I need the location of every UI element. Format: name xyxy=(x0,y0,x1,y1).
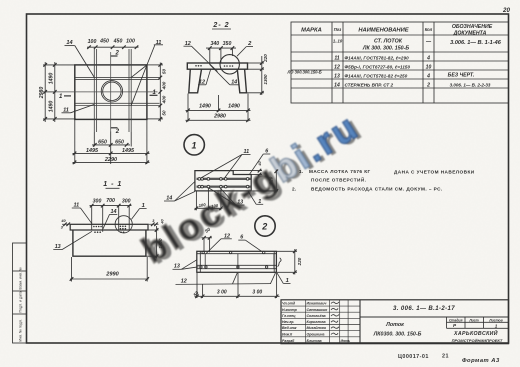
svg-text:Светашкин: Светашкин xyxy=(307,308,329,312)
svg-text:ЛК 300. 300. 150-Б: ЛК 300. 300. 150-Б xyxy=(362,46,410,52)
svg-text:1490: 1490 xyxy=(48,101,54,113)
svg-text:700: 700 xyxy=(106,198,115,204)
watermark block-gbi.ru xyxy=(135,104,371,274)
svg-text:Блинова: Блинова xyxy=(307,339,322,343)
svg-text:ОБОЗНАЧЕНИЕ: ОБОЗНАЧЕНИЕ xyxy=(452,24,493,30)
svg-text:220: 220 xyxy=(297,257,302,266)
svg-text:2: 2 xyxy=(115,129,120,135)
svg-text:Стадия: Стадия xyxy=(449,318,463,322)
svg-text:Гл.спец: Гл.спец xyxy=(282,314,296,318)
svg-text:100: 100 xyxy=(126,38,135,44)
svg-text:Подп. и дата: Подп. и дата xyxy=(19,291,23,312)
svg-text:1490: 1490 xyxy=(48,73,54,85)
plan section line 1-1 horizontal xyxy=(56,91,158,93)
svg-text:40: 40 xyxy=(257,161,262,167)
svg-text:СТЕРЖЕНЬ ВПР. СТ 2: СТЕРЖЕНЬ ВПР. СТ 2 xyxy=(345,83,394,88)
svg-text:Июнь: Июнь xyxy=(341,339,351,343)
svg-text:3 00: 3 00 xyxy=(217,290,227,296)
svg-text:3 00: 3 00 xyxy=(252,290,262,296)
plan opening horizontal lines xyxy=(75,77,160,105)
svg-text:Н.контр: Н.контр xyxy=(282,308,298,312)
svg-text:1: 1 xyxy=(495,323,498,328)
svg-text:10: 10 xyxy=(426,65,432,71)
svg-text:14: 14 xyxy=(166,195,172,201)
detail 1 bottom dims 100 100 xyxy=(195,188,223,210)
svg-text:Ф5Вр-I, ГОСТ6727-80, ℓ=1150: Ф5Вр-I, ГОСТ6727-80, ℓ=1150 xyxy=(345,65,411,70)
section 1-1 rebar dots xyxy=(93,226,126,234)
detail 1 outline with notch xyxy=(195,171,251,191)
svg-text:2290: 2290 xyxy=(104,157,117,163)
plan bottom dimension 650 650 xyxy=(92,132,131,165)
svg-text:Поз: Поз xyxy=(334,27,342,32)
note line 1 xyxy=(299,169,475,175)
svg-text:12: 12 xyxy=(334,65,340,71)
svg-text:Кириллова: Кириллова xyxy=(307,320,326,324)
svg-text:220: 220 xyxy=(263,54,268,63)
svg-text:21: 21 xyxy=(442,353,449,359)
svg-text:ХАРЬКОВСКИЙ: ХАРЬКОВСКИЙ xyxy=(453,329,498,337)
spec table grid xyxy=(291,22,509,103)
svg-text:40: 40 xyxy=(60,219,66,223)
plan bottom dimension 1495 1495 xyxy=(73,120,150,165)
svg-text:650: 650 xyxy=(115,139,124,145)
svg-text:ПОСЛЕ ОТВЕРСТИЙ.: ПОСЛЕ ОТВЕРСТИЙ. xyxy=(311,176,366,183)
plan opening vertical lines xyxy=(94,49,131,132)
left margin vertical texts xyxy=(19,267,23,341)
plan section line 2-2 vertical xyxy=(110,52,112,132)
svg-text:4: 4 xyxy=(426,74,430,80)
svg-text:ДАНА С УЧЕТОМ НАВЕЛОВКИ: ДАНА С УЧЕТОМ НАВЕЛОВКИ xyxy=(394,170,475,175)
svg-text:4: 4 xyxy=(426,56,430,62)
plan diagonal leaders to 11 xyxy=(131,45,155,106)
svg-text:2- 2: 2- 2 xyxy=(212,21,229,29)
svg-text:Орешкина: Орешкина xyxy=(307,332,325,336)
svg-text:400: 400 xyxy=(162,95,167,104)
svg-text:450: 450 xyxy=(113,38,123,44)
svg-text:300: 300 xyxy=(122,198,131,204)
svg-text:2980: 2980 xyxy=(213,114,226,120)
svg-text:400: 400 xyxy=(162,81,167,90)
svg-text:13: 13 xyxy=(334,74,340,80)
svg-text:2980: 2980 xyxy=(39,87,45,100)
svg-text:100: 100 xyxy=(88,39,97,45)
svg-text:Лист: Лист xyxy=(468,318,478,322)
plan right dimension chain 50 400 400 50 xyxy=(147,63,163,122)
svg-text:Чл.отд: Чл.отд xyxy=(282,302,296,306)
svg-text:2.: 2. xyxy=(292,187,297,192)
detail 2 bottom bar xyxy=(197,265,277,268)
spec table qty column xyxy=(425,39,432,89)
title block signature grid xyxy=(281,300,360,344)
section 2-2 left leg xyxy=(189,69,202,93)
section 1-1 right small dims 3 40 xyxy=(151,223,158,227)
svg-text:Нач.гр.: Нач.гр. xyxy=(282,320,294,324)
detail 1 stirrup circles xyxy=(198,178,249,188)
svg-text:50: 50 xyxy=(162,110,167,116)
svg-text:2: 2 xyxy=(426,83,430,89)
svg-text:300: 300 xyxy=(93,198,102,204)
plan hole circle xyxy=(101,81,122,102)
svg-text:2: 2 xyxy=(261,222,267,232)
svg-text:ПРОМСТРОЙНИИПРОЕКТ: ПРОМСТРОЙНИИПРОЕКТ xyxy=(452,338,503,343)
plan top dimension line 100 450 450 100 xyxy=(87,45,139,49)
svg-text:Ф14АIII, ГОСТ5781-82 ℓ=250: Ф14АIII, ГОСТ5781-82 ℓ=250 xyxy=(345,74,408,79)
section 2-2 detail circle xyxy=(220,55,239,74)
section 1-1 body xyxy=(73,230,146,256)
detail 2 top-left dim 50 xyxy=(202,236,213,252)
svg-text:1: 1 xyxy=(191,140,196,150)
svg-text:МАССА ЛОТКА 7576 КГ: МАССА ЛОТКА 7576 КГ xyxy=(309,169,371,174)
svg-text:Формат А3: Формат А3 xyxy=(462,358,500,364)
section 2-2 bottom dims 1490 1490 2980 xyxy=(186,94,251,123)
svg-text:Лоток: Лоток xyxy=(385,322,404,328)
title block outline xyxy=(281,300,509,344)
section 1-1 top plate xyxy=(70,224,148,230)
svg-text:13: 13 xyxy=(174,264,180,270)
svg-text:1490: 1490 xyxy=(199,104,211,110)
svg-text:50: 50 xyxy=(162,69,167,75)
svg-text:1..10: 1..10 xyxy=(333,39,343,44)
svg-text:3.006. 1— В. 2-2-33: 3.006. 1— В. 2-2-33 xyxy=(450,83,491,88)
plan outer square xyxy=(75,65,147,120)
section 1-1 left small dims 40 3 xyxy=(63,223,70,227)
svg-text:350: 350 xyxy=(223,41,232,47)
section 1-1 detail circle xyxy=(115,216,132,233)
detail 2 outline xyxy=(197,251,277,272)
svg-text:Михайлова: Михайлова xyxy=(307,326,326,330)
detail 1 dim 40 at notch xyxy=(233,169,262,177)
svg-text:14: 14 xyxy=(334,83,340,89)
svg-text:СТ. ЛОТОК: СТ. ЛОТОК xyxy=(374,39,403,45)
svg-text:650: 650 xyxy=(98,139,107,145)
spec table name column xyxy=(345,39,411,88)
section 2-2 top dims 340 350 xyxy=(206,46,236,63)
detail 1 circled number xyxy=(184,135,204,155)
svg-text:100: 100 xyxy=(198,202,206,208)
section 1-1 right dim 180 xyxy=(147,226,159,259)
svg-text:Кол: Кол xyxy=(425,27,433,32)
section 1-1 top dims 300 700 300 xyxy=(90,204,132,225)
section 2-2 right dims 220 1300 xyxy=(247,56,264,95)
svg-text:1300: 1300 xyxy=(263,74,268,85)
svg-text:Ф14АIII, ГОСТ5781-82, ℓ=290: Ф14АIII, ГОСТ5781-82, ℓ=290 xyxy=(345,56,410,61)
detail 2 stirrup circles xyxy=(200,251,268,268)
spec table poz column xyxy=(333,39,343,89)
detail 2 stirrups xyxy=(205,254,274,269)
detail 2 break squiggle xyxy=(278,258,282,267)
svg-text:100: 100 xyxy=(211,203,219,209)
plan bottom dimension 2990 xyxy=(73,161,150,165)
detail 2 end plates xyxy=(200,251,274,272)
svg-text:Инв. № подл.: Инв. № подл. xyxy=(19,319,23,341)
svg-text:ЛО 300.300.150-Б: ЛО 300.300.150-Б xyxy=(287,70,322,75)
svg-text:3. 006. 1— В.1-2-17: 3. 006. 1— В.1-2-17 xyxy=(393,306,455,312)
svg-text:Игнатович: Игнатович xyxy=(307,302,327,306)
svg-text:11: 11 xyxy=(334,56,339,62)
title block signatures squiggles xyxy=(331,302,339,335)
detail 1 right dim 220 xyxy=(252,170,278,193)
svg-text:Разраб: Разраб xyxy=(282,339,295,343)
section 1-1 rib marks xyxy=(92,224,130,232)
svg-text:Ц00017-01: Ц00017-01 xyxy=(398,354,429,360)
svg-text:Соловьёва: Соловьёва xyxy=(307,314,326,318)
svg-text:—: — xyxy=(425,39,432,45)
svg-text:12: 12 xyxy=(181,278,187,284)
svg-text:Вед.инж: Вед.инж xyxy=(282,326,297,330)
section 1-1 plate extension line xyxy=(62,223,159,225)
section 2-2 rebar dots xyxy=(195,65,233,67)
svg-text:1495: 1495 xyxy=(86,148,99,154)
svg-text:13: 13 xyxy=(237,199,243,205)
title block stage table xyxy=(447,317,509,328)
svg-text:Взам. инв. №: Взам. инв. № xyxy=(19,267,23,289)
detail 2 bottom dims 50 300 300 xyxy=(195,273,280,298)
spec table header texts xyxy=(301,24,493,37)
detail 2 top bar xyxy=(197,253,277,255)
svg-text:ВЕДОМОСТЬ РАСХОДА СТАЛИ СМ.: ВЕДОМОСТЬ РАСХОДА СТАЛИ СМ. ДОКУМ. – РС. xyxy=(311,187,443,192)
svg-text:40: 40 xyxy=(160,219,164,225)
detail 1 bar strips xyxy=(197,178,251,188)
svg-text:МАРКА: МАРКА xyxy=(301,28,322,34)
section 1-1 bottom dim 2990 xyxy=(70,257,149,282)
svg-text:Инж.II: Инж.II xyxy=(282,332,293,336)
svg-text:450: 450 xyxy=(99,38,109,44)
svg-text:20: 20 xyxy=(502,7,510,14)
svg-text:13: 13 xyxy=(55,244,61,250)
svg-text:3.006. 1— В. 1-1-46: 3.006. 1— В. 1-1-46 xyxy=(450,40,502,46)
svg-text:ДОКУМЕНТА: ДОКУМЕНТА xyxy=(453,31,487,37)
left margin strip xyxy=(13,243,27,343)
svg-text:Листов: Листов xyxy=(488,318,502,322)
svg-text:340: 340 xyxy=(210,41,219,47)
detail 2 circled number xyxy=(255,216,275,236)
svg-text:БЕЗ ЧЕРТ.: БЕЗ ЧЕРТ. xyxy=(448,73,475,79)
spec table document column xyxy=(448,40,502,88)
svg-text:1495: 1495 xyxy=(122,148,135,154)
detail 2 right dim 220 xyxy=(277,249,297,275)
svg-text:1 - 1: 1 - 1 xyxy=(103,180,122,188)
svg-text:1600: 1600 xyxy=(158,238,163,249)
plan left dimension chain 1490 1490 2980 xyxy=(43,62,76,122)
svg-text:220: 220 xyxy=(268,176,273,185)
section 2-2 right leg xyxy=(237,69,246,93)
section 2-2 slab xyxy=(187,63,247,69)
svg-text:2990: 2990 xyxy=(105,272,119,278)
svg-text:1490: 1490 xyxy=(228,104,240,110)
svg-text:ЛК0300. 300. 150-Б: ЛК0300. 300. 150-Б xyxy=(373,332,422,338)
title block signature texts xyxy=(282,302,350,343)
svg-text:НАИМЕНОВАНИЕ: НАИМЕНОВАНИЕ xyxy=(358,28,409,34)
note line 3 xyxy=(292,187,443,192)
svg-text:1.: 1. xyxy=(299,169,304,174)
